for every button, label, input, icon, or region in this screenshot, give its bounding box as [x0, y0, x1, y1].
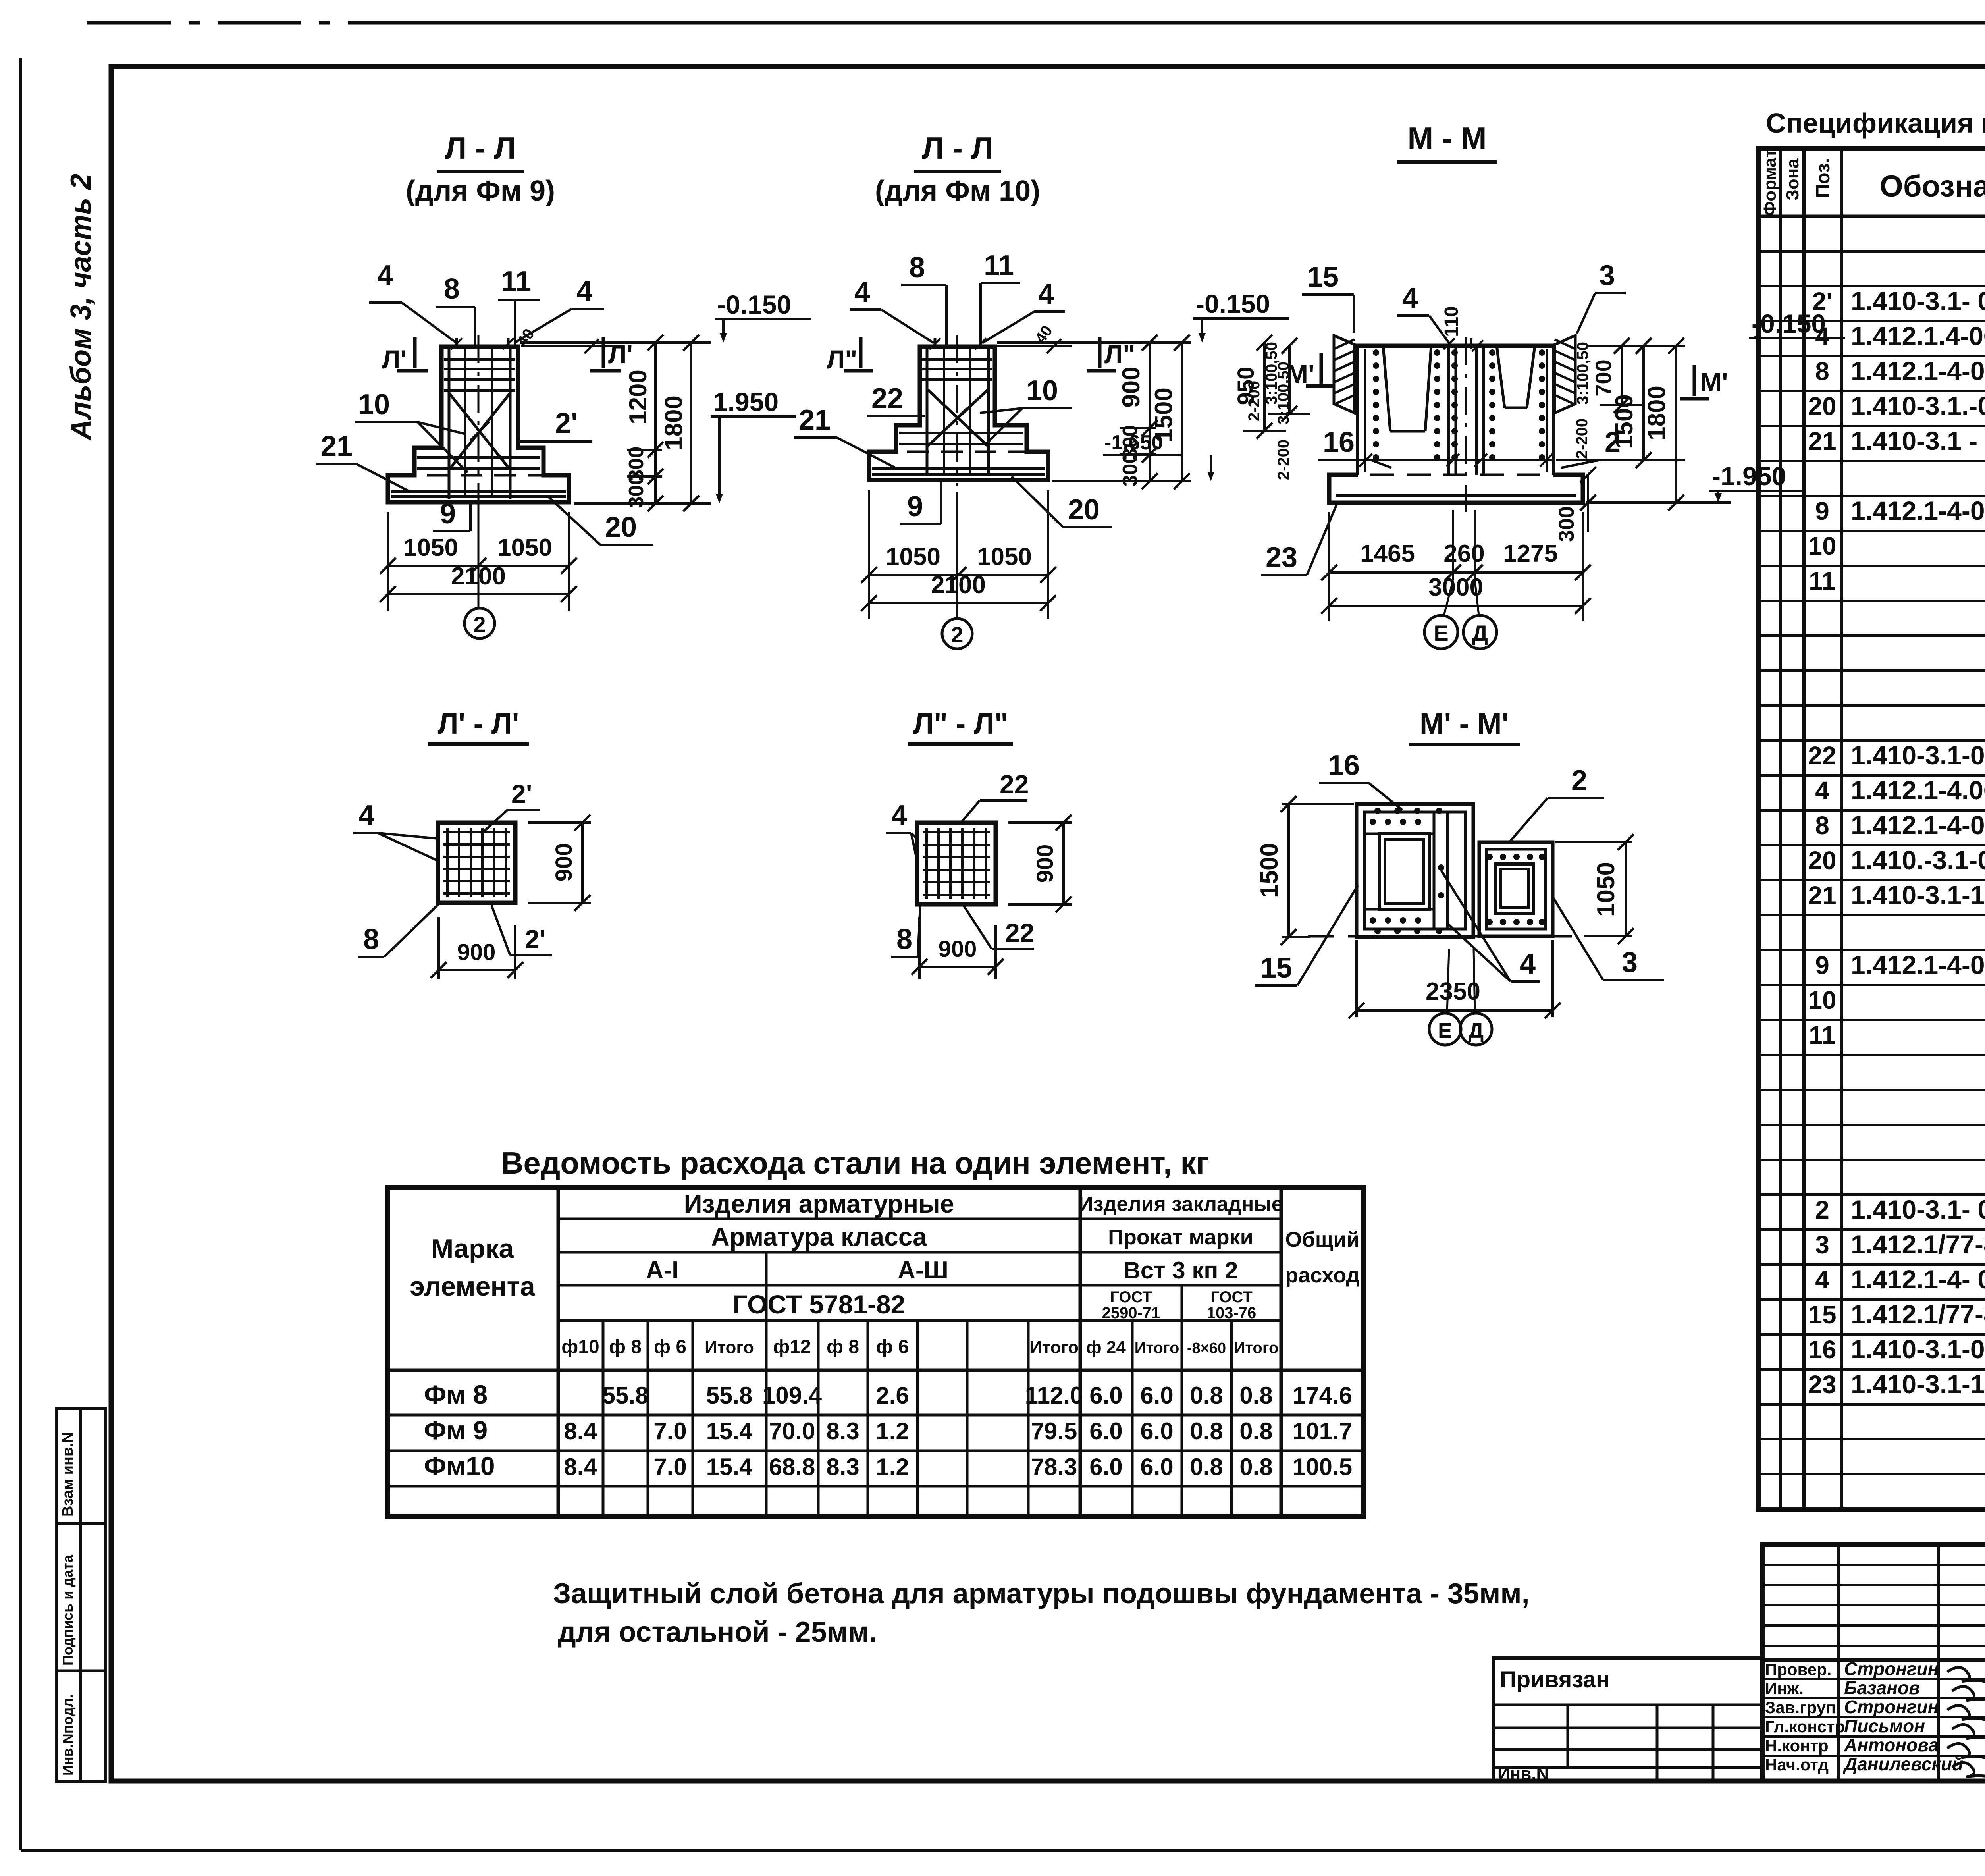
svg-text:Антонова: Антонова	[1844, 1735, 1939, 1755]
Фм9 foundation outline	[388, 347, 569, 502]
svg-text:16: 16	[1328, 750, 1360, 781]
svg-text:Е: Е	[1438, 1019, 1452, 1043]
svg-text:Инж.: Инж.	[1765, 1679, 1804, 1698]
svg-text:Провер.: Провер.	[1765, 1660, 1831, 1679]
svg-text:Ведомость расхода стали на оди: Ведомость расхода стали на один элемент,…	[501, 1145, 1209, 1180]
svg-text:10: 10	[1808, 986, 1836, 1014]
svg-text:3: 3	[1599, 260, 1615, 291]
svg-text:1.950: 1.950	[713, 387, 779, 416]
М-М right formwork hatch	[1555, 335, 1575, 413]
attachment block	[1494, 1658, 1763, 1783]
svg-text:9: 9	[440, 498, 456, 530]
М-М labels 15,3,4,110	[1302, 260, 1626, 351]
svg-text:1500: 1500	[1611, 394, 1638, 449]
Фм10 labels 22,10,21,9,20	[794, 375, 1112, 527]
svg-text:22: 22	[871, 383, 903, 415]
Фм9 section marks Л'	[382, 337, 633, 374]
svg-text:9: 9	[1815, 951, 1829, 979]
Л'-Л' labels	[353, 779, 552, 957]
svg-text:Общий: Общий	[1285, 1228, 1359, 1251]
steel consumption table title	[501, 1145, 1209, 1180]
svg-text:Защитный слой бетона для армат: Защитный слой бетона для арматуры подошв…	[553, 1578, 1530, 1610]
svg-text:11: 11	[1809, 1021, 1836, 1049]
top strip line	[87, 21, 1985, 25]
svg-text:9: 9	[1815, 497, 1829, 525]
svg-text:Инв.N: Инв.N	[1497, 1764, 1549, 1783]
svg-text:8.3: 8.3	[826, 1418, 859, 1444]
Фм9 labels 10,2',21,9,20	[316, 389, 653, 545]
svg-text:Л" - Л": Л" - Л"	[913, 707, 1008, 740]
svg-text:ф10: ф10	[561, 1336, 599, 1357]
steel table grid	[388, 1187, 1364, 1517]
svg-text:1500: 1500	[1256, 843, 1283, 898]
svg-text:10: 10	[1808, 532, 1836, 560]
section Л"-Л" title	[908, 707, 1013, 744]
svg-text:78.3: 78.3	[1031, 1454, 1077, 1480]
svg-text:4: 4	[358, 800, 374, 831]
svg-text:1.410-3.1 - 10: 1.410-3.1 - 10	[1851, 426, 1985, 455]
svg-text:2-200: 2-200	[1275, 440, 1292, 480]
svg-text:1050: 1050	[977, 543, 1032, 571]
svg-text:Взам инв.N: Взам инв.N	[60, 1432, 76, 1517]
М'-М' axis circles Е Д	[1429, 949, 1492, 1045]
svg-text:Стронгин: Стронгин	[1844, 1658, 1939, 1679]
svg-text:1275: 1275	[1503, 540, 1558, 567]
svg-text:Итого: Итого	[1029, 1338, 1079, 1357]
М-М base slab	[1329, 475, 1583, 503]
svg-text:Д: Д	[1472, 621, 1488, 646]
title block outline	[1763, 1544, 1985, 1781]
Фм10 section marks Л"	[827, 337, 1135, 374]
svg-text:110: 110	[1441, 306, 1462, 337]
Л"-Л" labels	[886, 769, 1034, 957]
svg-text:Нач.отд: Нач.отд	[1765, 1755, 1829, 1774]
section М-М title	[1397, 121, 1497, 162]
svg-text:4: 4	[1815, 776, 1829, 805]
svg-text:101.7: 101.7	[1293, 1418, 1352, 1444]
svg-text:8: 8	[1815, 357, 1829, 386]
svg-text:2: 2	[1571, 765, 1587, 796]
svg-text:1.412.1-4- 06а: 1.412.1-4- 06а	[1851, 1265, 1985, 1294]
left registration boxes	[56, 1409, 106, 1781]
svg-text:15: 15	[1307, 261, 1339, 293]
title block left small rows	[1763, 1565, 1985, 1756]
svg-text:23: 23	[1808, 1370, 1836, 1399]
М-М elevation -1.950	[1709, 461, 1806, 503]
svg-text:Изделия арматурные: Изделия арматурные	[684, 1190, 954, 1218]
svg-text:15: 15	[1808, 1300, 1836, 1329]
svg-text:Зона: Зона	[1783, 158, 1802, 201]
svg-text:1.410-3.1-02: 1.410-3.1-02	[1851, 1334, 1985, 1364]
Фм10 vertical dim chain 900/300/300	[997, 335, 1191, 489]
section Л-Л (для Фм10) title	[875, 131, 1040, 207]
Фм9 column reinforcement	[417, 335, 540, 508]
М-М walls and troughs	[1355, 337, 1555, 512]
svg-text:Формат: Формат	[1760, 149, 1780, 216]
svg-text:15.4: 15.4	[706, 1418, 753, 1444]
svg-text:10: 10	[1026, 375, 1058, 407]
svg-text:1.410-3.1- 01: 1.410-3.1- 01	[1851, 286, 1985, 316]
svg-text:20: 20	[605, 511, 637, 543]
svg-text:для остальной - 25мм.: для остальной - 25мм.	[558, 1616, 877, 1648]
svg-text:8: 8	[363, 924, 379, 955]
svg-text:1.410-3.1-12: 1.410-3.1-12	[1851, 1369, 1985, 1399]
svg-text:1.410-3.1-10: 1.410-3.1-10	[1851, 880, 1985, 910]
svg-text:55.8: 55.8	[706, 1382, 753, 1409]
svg-text:22: 22	[1808, 741, 1836, 770]
svg-text:Л' - Л': Л' - Л'	[438, 707, 519, 740]
М-М labels 16,2,23	[1261, 426, 1631, 575]
svg-text:(для Фм 10): (для Фм 10)	[875, 175, 1040, 207]
Фм10 elevation -1.650	[1103, 431, 1214, 481]
svg-text:1.412.1-4.060: 1.412.1-4.060	[1851, 775, 1985, 805]
svg-text:23: 23	[1266, 542, 1297, 573]
Фм10 labels 8,11,4	[850, 250, 1065, 345]
svg-text:ГОСТ 5781-82: ГОСТ 5781-82	[733, 1290, 906, 1319]
svg-text:2-200: 2-200	[1573, 418, 1591, 459]
svg-text:Спецификация монолитных фундам: Спецификация монолитных фундаментов Фм8,…	[1766, 108, 1985, 139]
svg-text:2': 2'	[511, 779, 532, 808]
svg-text:Базанов: Базанов	[1844, 1677, 1920, 1698]
svg-text:8: 8	[909, 252, 925, 283]
svg-text:103-76: 103-76	[1207, 1304, 1257, 1322]
Фм9 bottom dims 1050+1050, 2100	[380, 512, 577, 611]
svg-text:Подпись и дата: Подпись и дата	[60, 1554, 76, 1666]
svg-text:22: 22	[1000, 769, 1029, 799]
svg-text:20: 20	[1068, 494, 1100, 526]
svg-text:15.4: 15.4	[706, 1454, 753, 1480]
svg-text:3:100,50: 3:100,50	[1263, 342, 1280, 405]
svg-text:8.4: 8.4	[564, 1418, 597, 1444]
М'-М' dim 2350	[1349, 940, 1561, 1018]
svg-text:1050: 1050	[403, 534, 458, 561]
spec rows Фм10	[1808, 669, 1985, 1119]
svg-text:8: 8	[1815, 811, 1829, 840]
svg-text:21: 21	[1808, 881, 1836, 910]
svg-text:4: 4	[576, 276, 592, 307]
М-М elevation -0.150	[1749, 309, 1845, 346]
svg-text:6.0: 6.0	[1089, 1418, 1122, 1444]
Л'-Л' dims 900x900	[431, 815, 591, 979]
svg-text:1.412.1/77-83-060: 1.412.1/77-83-060	[1851, 1300, 1985, 1329]
svg-text:-0.150: -0.150	[717, 290, 791, 319]
М'-М' labels 16,2,15,4,3	[1255, 750, 1664, 985]
svg-text:1050: 1050	[497, 534, 552, 561]
М-М right rotated dims	[1573, 342, 1592, 459]
svg-text:112.0: 112.0	[1025, 1382, 1083, 1409]
svg-text:68.8: 68.8	[769, 1454, 815, 1480]
svg-text:20: 20	[1808, 392, 1836, 420]
title block signatures (squiggles)	[1947, 1667, 1985, 1778]
svg-text:11: 11	[984, 250, 1014, 281]
steel table data rows	[424, 1380, 1352, 1481]
svg-text:М' - М': М' - М'	[1420, 707, 1509, 740]
svg-text:А-I: А-I	[646, 1257, 679, 1284]
svg-text:Марка: Марка	[431, 1234, 515, 1264]
title block signature rows	[1765, 1658, 1963, 1774]
svg-text:4: 4	[854, 276, 870, 308]
section Л'-Л' title	[428, 707, 529, 744]
svg-text:-8×60: -8×60	[1187, 1340, 1226, 1357]
svg-text:0.8: 0.8	[1239, 1454, 1272, 1480]
svg-text:300: 300	[1555, 506, 1578, 542]
Фм10 vertical dim 1500	[1150, 335, 1190, 489]
specification table header text	[1760, 149, 1985, 216]
svg-text:2: 2	[1815, 1195, 1829, 1224]
svg-text:Поз.: Поз.	[1813, 158, 1834, 198]
spec rows Фм9	[1808, 214, 1985, 665]
svg-text:16: 16	[1323, 426, 1355, 458]
Фм10 small 40 dim	[997, 322, 1072, 353]
svg-text:1050: 1050	[1592, 862, 1620, 917]
svg-text:1200: 1200	[624, 370, 652, 424]
svg-text:1.412.1-4-050: 1.412.1-4-050	[1851, 356, 1985, 386]
svg-text:Итого: Итого	[1234, 1339, 1279, 1357]
svg-text:2: 2	[951, 622, 963, 647]
svg-text:11: 11	[1809, 567, 1836, 595]
svg-text:Привязан: Привязан	[1500, 1667, 1610, 1693]
Фм9 axis circle 2	[464, 502, 495, 638]
svg-text:70.0: 70.0	[769, 1418, 815, 1444]
svg-text:260: 260	[1443, 540, 1484, 567]
svg-text:4: 4	[1038, 278, 1054, 310]
svg-text:2350: 2350	[1426, 978, 1480, 1005]
svg-text:6.0: 6.0	[1140, 1382, 1173, 1409]
svg-text:Данилевский: Данилевский	[1842, 1754, 1963, 1774]
svg-text:4: 4	[891, 800, 907, 831]
svg-text:3: 3	[1622, 947, 1638, 978]
svg-text:8: 8	[444, 273, 460, 305]
svg-text:1.410-3.1.-07: 1.410-3.1.-07	[1851, 391, 1985, 420]
svg-text:элемента: элемента	[410, 1271, 536, 1301]
svg-text:1.410.-3.1-07: 1.410.-3.1-07	[1851, 845, 1985, 875]
svg-text:2100: 2100	[931, 571, 986, 599]
svg-text:15: 15	[1260, 952, 1292, 984]
Л"-Л" mesh section	[917, 823, 996, 904]
М-М bottom dims 1465/260/1275, 3000	[1321, 510, 1591, 621]
М-М right dim 700	[1591, 338, 1644, 413]
svg-text:2-200: 2-200	[1245, 381, 1263, 421]
svg-text:ф12: ф12	[773, 1336, 811, 1357]
svg-text:Прокат марки: Прокат марки	[1108, 1225, 1253, 1249]
svg-text:22: 22	[1005, 918, 1034, 947]
album label (rotated)	[65, 174, 97, 441]
svg-text:8.4: 8.4	[564, 1454, 597, 1480]
svg-text:109.4: 109.4	[762, 1382, 822, 1409]
М'-М' large footing plan	[1357, 804, 1473, 937]
svg-text:Итого: Итого	[1135, 1339, 1179, 1357]
svg-text:11: 11	[501, 266, 531, 297]
svg-text:Альбом 3, часть 2: Альбом 3, часть 2	[65, 174, 97, 441]
svg-text:ф 8: ф 8	[609, 1336, 642, 1357]
svg-text:М - М: М - М	[1407, 121, 1486, 156]
svg-text:900: 900	[1032, 844, 1058, 883]
svg-text:21: 21	[1808, 427, 1836, 455]
svg-text:900: 900	[457, 939, 496, 965]
svg-text:1800: 1800	[1643, 386, 1671, 440]
svg-text:Л": Л"	[1104, 339, 1135, 369]
svg-text:расход: расход	[1285, 1263, 1360, 1287]
svg-text:1.412.1-4-050: 1.412.1-4-050	[1851, 810, 1985, 840]
М-М dim 1800 and 300	[1555, 338, 1731, 542]
svg-text:Л': Л'	[608, 339, 633, 369]
svg-text:1465: 1465	[1360, 540, 1415, 567]
svg-text:6.0: 6.0	[1089, 1454, 1122, 1480]
svg-text:Зав.груп: Зав.груп	[1765, 1698, 1836, 1717]
Фм9 small 40 dim	[514, 326, 618, 353]
svg-text:4: 4	[377, 260, 393, 291]
Фм10 right dim 950 and 2-200,3x100	[1233, 335, 1292, 480]
specification table grid	[1758, 148, 1985, 1509]
Л"-Л" dims 900x900	[912, 815, 1072, 979]
М-М rebar dots	[1373, 349, 1545, 461]
Фм9 elevation -0.150	[715, 290, 811, 343]
svg-text:8: 8	[896, 924, 912, 955]
Фм9 labels 4,8,11	[369, 260, 604, 345]
Фм9 vertical dim chain 1200/300/300	[520, 335, 711, 511]
svg-text:3: 3	[1815, 1230, 1829, 1259]
Фм10 foundation outline	[869, 347, 1048, 480]
section Л-Л (для Фм9) title	[406, 131, 555, 207]
svg-text:ГОСТ: ГОСТ	[1110, 1288, 1152, 1306]
svg-text:6.0: 6.0	[1140, 1418, 1173, 1444]
svg-text:900: 900	[1118, 366, 1145, 407]
specification table title	[1766, 108, 1985, 139]
М'-М' dim 1500	[1256, 796, 1354, 945]
Фм9 vertical dim 1800	[660, 335, 699, 511]
svg-text:100.5: 100.5	[1293, 1454, 1352, 1480]
svg-text:1.412.1/77-83- 020: 1.412.1/77-83- 020	[1851, 1230, 1985, 1259]
svg-text:Итого: Итого	[705, 1338, 754, 1357]
svg-text:ф 6: ф 6	[654, 1336, 686, 1357]
svg-text:0.8: 0.8	[1239, 1382, 1272, 1409]
svg-text:2590-71: 2590-71	[1102, 1304, 1160, 1322]
Л'-Л' mesh section	[438, 823, 515, 903]
М-М left formwork hatch	[1334, 335, 1355, 413]
svg-text:16: 16	[1808, 1335, 1836, 1364]
svg-text:1.410-3.1- 01: 1.410-3.1- 01	[1851, 1195, 1985, 1224]
svg-text:Изделия закладные: Изделия закладные	[1078, 1193, 1283, 1216]
svg-text:700: 700	[1591, 359, 1616, 396]
svg-text:Гл.констр: Гл.констр	[1765, 1717, 1845, 1736]
svg-text:ф 6: ф 6	[876, 1336, 909, 1357]
svg-text:1.412.1-4-080: 1.412.1-4-080	[1851, 950, 1985, 979]
svg-text:(для Фм 9): (для Фм 9)	[406, 175, 555, 207]
Фм10 axis circle 2	[942, 492, 972, 649]
svg-text:2': 2'	[555, 407, 578, 439]
svg-text:Обозначение: Обозначение	[1880, 170, 1985, 203]
svg-text:Д: Д	[1469, 1019, 1484, 1043]
svg-text:Письмон: Письмон	[1844, 1716, 1925, 1736]
svg-text:8.3: 8.3	[826, 1454, 859, 1480]
svg-text:Вст 3 кп 2: Вст 3 кп 2	[1123, 1257, 1238, 1284]
Фм10 bottom dims 1050+1050, 2100	[861, 490, 1056, 619]
svg-text:0.8: 0.8	[1239, 1418, 1272, 1444]
М-М axis circles Е Д	[1424, 580, 1497, 649]
svg-text:20: 20	[1808, 846, 1836, 875]
svg-text:2: 2	[473, 612, 486, 637]
svg-text:Фм 8: Фм 8	[424, 1380, 488, 1409]
svg-text:10: 10	[358, 389, 390, 420]
Фм9 elevation -1.950	[711, 387, 796, 503]
Фм10 column reinforcement	[899, 335, 1023, 486]
svg-text:Е: Е	[1434, 621, 1448, 646]
М'-М' dim 1050	[1555, 834, 1634, 944]
svg-text:Стронгин: Стронгин	[1844, 1697, 1939, 1717]
svg-text:Арматура класса: Арматура класса	[711, 1222, 927, 1251]
svg-text:3:100,50: 3:100,50	[1574, 342, 1592, 405]
svg-text:4: 4	[1402, 282, 1418, 314]
svg-text:9: 9	[907, 491, 923, 523]
М'-М' base dashed line	[1308, 935, 1582, 938]
svg-text:0.8: 0.8	[1190, 1418, 1223, 1444]
svg-text:4: 4	[1815, 322, 1829, 351]
svg-text:900: 900	[939, 936, 977, 962]
svg-text:Н.контр: Н.контр	[1765, 1736, 1829, 1755]
М'-М' small footing plan	[1479, 842, 1553, 936]
svg-text:Инв.Nподл.: Инв.Nподл.	[60, 1694, 76, 1776]
svg-text:21: 21	[321, 430, 353, 462]
svg-text:79.5: 79.5	[1031, 1418, 1077, 1444]
svg-text:21: 21	[799, 404, 831, 436]
svg-text:4: 4	[1815, 1265, 1829, 1294]
svg-text:Л - Л: Л - Л	[922, 131, 993, 166]
svg-text:1.412.1-4-080: 1.412.1-4-080	[1851, 496, 1985, 525]
concrete cover note	[553, 1578, 1530, 1648]
svg-text:А-Ш: А-Ш	[898, 1257, 948, 1284]
svg-text:55.8: 55.8	[602, 1382, 649, 1409]
steel table header text	[410, 1190, 1359, 1357]
section М'-М' title	[1409, 707, 1520, 745]
svg-text:0.8: 0.8	[1190, 1454, 1223, 1480]
svg-text:ф 24: ф 24	[1086, 1338, 1126, 1357]
svg-text:М': М'	[1700, 367, 1728, 397]
svg-text:2': 2'	[525, 924, 545, 954]
svg-text:-1.650: -1.650	[1104, 431, 1163, 454]
svg-text:Л - Л: Л - Л	[445, 131, 516, 166]
М-М section marks М'	[1286, 353, 1728, 399]
М-М left rotated dims	[1245, 338, 1310, 422]
spec rows Фм8	[1808, 1123, 1985, 1504]
Фм10 elevation -0.150	[1193, 289, 1289, 343]
svg-text:Фм10: Фм10	[424, 1451, 495, 1481]
svg-text:-1.950: -1.950	[1712, 461, 1786, 491]
svg-text:1800: 1800	[660, 395, 688, 450]
svg-text:0.8: 0.8	[1190, 1382, 1223, 1409]
svg-text:ГОСТ: ГОСТ	[1210, 1288, 1253, 1306]
svg-text:4: 4	[1520, 948, 1536, 980]
svg-text:174.6: 174.6	[1293, 1382, 1352, 1409]
М-М dim 1500	[1556, 338, 1685, 468]
svg-text:ф 8: ф 8	[827, 1336, 859, 1357]
svg-text:6.0: 6.0	[1140, 1454, 1173, 1480]
svg-text:6.0: 6.0	[1089, 1382, 1122, 1409]
svg-text:7.0: 7.0	[653, 1418, 686, 1444]
svg-text:-0.150: -0.150	[1196, 289, 1270, 318]
svg-text:2': 2'	[1812, 287, 1833, 316]
svg-text:1050: 1050	[886, 543, 940, 571]
svg-text:Фм 9: Фм 9	[424, 1415, 488, 1445]
svg-text:1.412.1.4-060: 1.412.1.4-060	[1851, 321, 1985, 351]
svg-text:900: 900	[551, 843, 577, 882]
svg-text:7.0: 7.0	[653, 1454, 686, 1480]
svg-text:1.2: 1.2	[876, 1454, 909, 1480]
svg-text:1.410-3.1-01: 1.410-3.1-01	[1851, 740, 1985, 770]
svg-text:1.2: 1.2	[876, 1418, 909, 1444]
svg-text:2.6: 2.6	[876, 1382, 909, 1409]
